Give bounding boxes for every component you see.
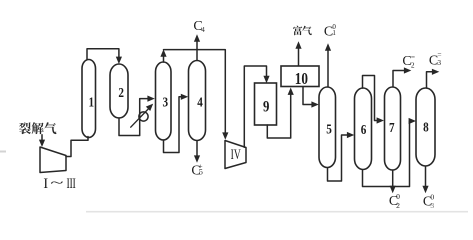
column 8 (propylene tower) (416, 88, 435, 166)
svg-text:9: 9 (263, 98, 269, 116)
svg-text:10: 10 (295, 71, 308, 89)
svg-text:~: ~ (50, 175, 64, 190)
wire: C3= propylene off column 8 top (427, 72, 433, 88)
wire: C4 product off column 4 top (196, 41, 198, 61)
wire: column 2 bottoms to column 3 (119, 99, 149, 136)
wire: C2(0) ethane off column 7 bottom (392, 170, 394, 187)
svg-text:4: 4 (201, 27, 205, 34)
column 5 (demethanizer) (319, 87, 336, 168)
wire: column 3 bottoms to column 4 (164, 97, 183, 153)
vessel 10 (cold box) (281, 66, 319, 87)
svg-text:5: 5 (326, 121, 332, 136)
wire: compressor IV outlet to dryer 9 (244, 66, 266, 147)
wire: C3(0) propane off column 8 bottom (425, 166, 427, 187)
svg-text:2: 2 (118, 85, 124, 100)
wire: rich gas (富气) off vessel 10 top (298, 48, 300, 66)
column 4 (189, 61, 206, 141)
svg-text:5: 5 (199, 168, 203, 177)
wire: column 3 overhead to compressor IV (163, 56, 165, 62)
svg-text:I: I (43, 176, 48, 192)
svg-text:3: 3 (430, 201, 434, 210)
svg-text:III: III (67, 175, 76, 192)
vessel 9 (dryer) (255, 83, 277, 125)
svg-text:8: 8 (423, 119, 429, 134)
svg-text:0: 0 (430, 192, 434, 201)
svg-text:6: 6 (361, 122, 367, 137)
svg-text:1: 1 (332, 29, 336, 37)
svg-text:7: 7 (389, 120, 395, 135)
svg-text:3: 3 (437, 58, 441, 67)
column 7 (ethylene tower) (385, 87, 401, 170)
svg-text:3: 3 (163, 94, 169, 109)
wire: column 6 bottoms to column 8 (363, 121, 411, 187)
wire: vessel 9 bottoms to cold box 10 (267, 94, 290, 138)
wire: column 6 overhead to column 7 (363, 76, 379, 121)
expansion valve symbol (circle with diagonal arrow) (139, 112, 148, 121)
column 3 (156, 62, 172, 140)
wire: vessel 10 to column 5 feed (303, 87, 313, 105)
svg-text:1: 1 (89, 94, 95, 109)
wire: C5+ bottoms off column 4 (196, 141, 198, 157)
label: cracked gas feed (裂解气) (19, 122, 56, 134)
svg-text:IV: IV (231, 146, 241, 163)
scan smudge bottom (86, 211, 468, 213)
wire: column 1 overhead to column 2 (87, 49, 119, 60)
wire: feed arrow into compressor I-III (41, 135, 43, 141)
svg-text:2: 2 (396, 201, 400, 210)
column 6 (deethanizer) (355, 88, 372, 170)
column 1 (82, 60, 96, 138)
compressor IV (trapezoid) (225, 141, 246, 169)
wire: column 5 bottoms to column 6 (328, 135, 349, 181)
wire: C1 methane off column 5 top (327, 50, 329, 87)
label: 富气 (293, 26, 312, 35)
wire: C2= ethylene off column 7 top (393, 71, 405, 87)
compressor I~III (trapezoid) (40, 147, 66, 173)
column 2 (drum) (110, 64, 128, 118)
svg-text:2: 2 (411, 61, 415, 70)
wire: compressor outlet to column 1 bottom (66, 137, 88, 157)
svg-text:0: 0 (396, 192, 400, 201)
svg-text:4: 4 (197, 95, 203, 110)
